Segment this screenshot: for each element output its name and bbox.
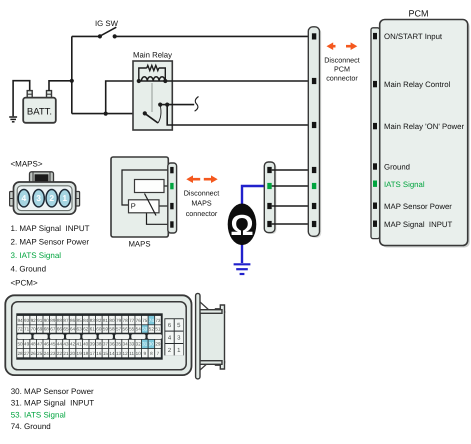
svg-text:73: 73 xyxy=(155,318,161,323)
svg-text:70: 70 xyxy=(31,327,37,332)
svg-text:83: 83 xyxy=(90,318,96,323)
svg-text:1: 1 xyxy=(62,193,67,203)
wire MAPS harness pin4 to PCM harness xyxy=(272,223,313,225)
svg-text:64: 64 xyxy=(70,327,76,332)
svg-text:Main Relay Control: Main Relay Control xyxy=(384,80,451,89)
svg-text:16: 16 xyxy=(96,351,102,356)
svg-text:2: 2 xyxy=(49,193,54,203)
node A junction xyxy=(70,79,74,83)
relay armature link xyxy=(151,83,153,112)
svg-text:92: 92 xyxy=(31,318,37,323)
svg-text:53. IATS Signal: 53. IATS Signal xyxy=(11,410,66,419)
svg-text:28: 28 xyxy=(17,351,23,356)
relay Main Relay xyxy=(133,51,172,131)
test lead (blue) ohmmeter to IATS pin xyxy=(242,186,268,206)
svg-text:7: 7 xyxy=(157,351,160,356)
svg-text:53: 53 xyxy=(142,327,148,332)
PCM pin grid row 94-73 xyxy=(17,316,161,325)
svg-text:59: 59 xyxy=(103,327,109,332)
MAPS internal wiring xyxy=(122,170,169,224)
PCM connector keying slots xyxy=(17,334,162,339)
PCM pin grid row 72-51 xyxy=(17,325,161,333)
svg-text:57: 57 xyxy=(116,327,122,332)
svg-text:37: 37 xyxy=(103,342,109,347)
MAPS pin 3 xyxy=(33,190,44,207)
ground (ohmmeter test lead) xyxy=(234,264,251,274)
svg-text:29: 29 xyxy=(155,342,161,347)
svg-text:IG SW: IG SW xyxy=(95,19,119,28)
svg-text:30: 30 xyxy=(149,342,155,347)
wire through relay coil row xyxy=(139,80,166,82)
svg-text:Ω: Ω xyxy=(230,210,253,242)
inductor relay coil xyxy=(141,77,165,81)
svg-text:21: 21 xyxy=(63,351,69,356)
svg-text:89: 89 xyxy=(50,318,56,323)
svg-text:Disconnect: Disconnect xyxy=(324,56,360,65)
PCM pin grid block xyxy=(16,313,162,359)
MAPS pin 2 xyxy=(46,190,57,207)
sensor MAPS box xyxy=(111,157,168,249)
svg-text:47: 47 xyxy=(37,342,43,347)
svg-text:41: 41 xyxy=(77,342,83,347)
PCM connector mounting bracket xyxy=(196,293,225,379)
svg-text:PCM: PCM xyxy=(409,9,429,19)
wire MAPS harness pin2 (IATS) to PCM harness xyxy=(272,185,313,187)
svg-text:72: 72 xyxy=(17,327,23,332)
svg-text:9: 9 xyxy=(144,351,147,356)
wire relay coil to PCM connector (Main Relay Control) xyxy=(165,80,312,82)
svg-text:77: 77 xyxy=(129,318,135,323)
svg-text:4: 4 xyxy=(22,193,27,203)
svg-text:31. MAP Signal INPUT: 31. MAP Signal INPUT xyxy=(11,399,95,408)
svg-text:85: 85 xyxy=(77,318,83,323)
svg-text:4. Ground: 4. Ground xyxy=(11,264,47,273)
label Disconnect MAPS connector with arrows xyxy=(184,175,220,218)
svg-text:31: 31 xyxy=(142,342,148,347)
svg-text:43: 43 xyxy=(63,342,69,347)
wire IG SW feed (vertical bus) xyxy=(71,36,73,113)
svg-text:50: 50 xyxy=(17,342,23,347)
svg-text:61: 61 xyxy=(90,327,96,332)
svg-text:38: 38 xyxy=(96,342,102,347)
module PCM box xyxy=(380,9,470,248)
svg-text:40: 40 xyxy=(83,342,89,347)
svg-text:32: 32 xyxy=(136,342,142,347)
svg-text:54: 54 xyxy=(136,327,142,332)
svg-text:94: 94 xyxy=(17,318,23,323)
svg-text:71: 71 xyxy=(24,327,30,332)
svg-text:60: 60 xyxy=(96,327,102,332)
svg-text:51: 51 xyxy=(155,327,161,332)
svg-text:<PCM>: <PCM> xyxy=(11,278,38,287)
svg-text:19: 19 xyxy=(77,351,83,356)
ohmmeter xyxy=(228,204,257,246)
ground (battery negative) xyxy=(9,117,17,122)
connector MAPS harness strip xyxy=(264,162,276,234)
svg-text:58: 58 xyxy=(109,327,115,332)
svg-text:69: 69 xyxy=(37,327,43,332)
relay switch contacts xyxy=(143,103,170,124)
svg-text:3. IATS Signal: 3. IATS Signal xyxy=(11,251,62,260)
svg-text:20: 20 xyxy=(70,351,76,356)
svg-text:26: 26 xyxy=(31,351,37,356)
wire MAPS harness pin3 to PCM harness xyxy=(272,205,313,207)
svg-text:2. MAP Sensor Power: 2. MAP Sensor Power xyxy=(11,237,90,246)
svg-text:56: 56 xyxy=(123,327,129,332)
svg-text:39: 39 xyxy=(90,342,96,347)
PCM pin grid row 28-7 xyxy=(17,349,161,357)
svg-text:30. MAP Sensor Power: 30. MAP Sensor Power xyxy=(11,387,94,396)
svg-text:11: 11 xyxy=(129,351,134,356)
wire node A row to relay switch common xyxy=(72,113,145,115)
wire IG SW to PCM connector pin ON/START xyxy=(115,35,313,37)
svg-text:14: 14 xyxy=(109,351,115,356)
svg-text:Main Relay 'ON' Power: Main Relay 'ON' Power xyxy=(384,122,465,131)
svg-text:76: 76 xyxy=(136,318,142,323)
connector view PCM shell xyxy=(5,295,191,375)
svg-text:91: 91 xyxy=(37,318,43,323)
svg-text:36: 36 xyxy=(109,342,115,347)
svg-text:12: 12 xyxy=(123,351,129,356)
connector tab on MAPS (component side) xyxy=(168,163,177,233)
svg-text:35: 35 xyxy=(116,342,122,347)
svg-text:27: 27 xyxy=(24,351,30,356)
svg-text:8: 8 xyxy=(150,351,153,356)
resistor (relay coil suppression) xyxy=(139,65,166,81)
wire node B to relay coil xyxy=(106,81,139,114)
PCM pin grid row 50-29 xyxy=(17,340,161,349)
svg-text:MAPS: MAPS xyxy=(128,240,150,249)
svg-text:ON/START Input: ON/START Input xyxy=(384,32,443,41)
wire battery positive to node A xyxy=(49,81,72,91)
svg-text:44: 44 xyxy=(57,342,63,347)
svg-text:<MAPS>: <MAPS> xyxy=(11,160,43,169)
wire relay aux output with break symbol xyxy=(167,97,198,112)
svg-text:BATT.: BATT. xyxy=(27,106,52,117)
svg-text:84: 84 xyxy=(83,318,89,323)
svg-text:90: 90 xyxy=(44,318,50,323)
svg-text:65: 65 xyxy=(63,327,69,332)
svg-text:13: 13 xyxy=(116,351,122,356)
wire relay switched output to PCM connector (Main Relay ON Power) xyxy=(167,105,312,125)
svg-text:MAP Signal INPUT: MAP Signal INPUT xyxy=(384,220,453,229)
svg-text:Ground: Ground xyxy=(384,163,410,172)
svg-text:Disconnect: Disconnect xyxy=(184,188,220,197)
svg-text:15: 15 xyxy=(103,351,109,356)
svg-text:45: 45 xyxy=(50,342,56,347)
svg-text:23: 23 xyxy=(50,351,56,356)
svg-text:22: 22 xyxy=(57,351,63,356)
svg-text:87: 87 xyxy=(63,318,69,323)
svg-text:67: 67 xyxy=(50,327,56,332)
svg-text:25: 25 xyxy=(37,351,43,356)
svg-text:34: 34 xyxy=(123,342,129,347)
wire battery negative to ground xyxy=(13,81,30,117)
svg-text:1. MAP Signal INPUT: 1. MAP Signal INPUT xyxy=(11,224,90,233)
svg-text:74: 74 xyxy=(149,318,155,323)
svg-text:88: 88 xyxy=(57,318,63,323)
connector PCM header (module side) xyxy=(371,28,380,239)
svg-text:connector: connector xyxy=(326,74,358,83)
svg-text:81: 81 xyxy=(103,318,109,323)
svg-text:82: 82 xyxy=(96,318,102,323)
connector PCM harness strip xyxy=(308,27,321,238)
svg-text:MAP Sensor Power: MAP Sensor Power xyxy=(384,202,452,211)
svg-text:17: 17 xyxy=(90,351,96,356)
MAPS pressure sensing element P xyxy=(129,194,160,216)
svg-text:86: 86 xyxy=(70,318,76,323)
svg-text:80: 80 xyxy=(109,318,115,323)
svg-text:MAPS: MAPS xyxy=(191,199,212,208)
svg-text:78: 78 xyxy=(123,318,129,323)
svg-text:75: 75 xyxy=(142,318,148,323)
svg-text:18: 18 xyxy=(83,351,89,356)
svg-text:74. Ground: 74. Ground xyxy=(11,422,51,431)
svg-text:10: 10 xyxy=(136,351,142,356)
MAPS inner element (vacuum chamber) xyxy=(135,180,165,193)
svg-text:79: 79 xyxy=(116,318,122,323)
svg-text:68: 68 xyxy=(44,327,50,332)
svg-text:42: 42 xyxy=(70,342,76,347)
svg-text:P: P xyxy=(131,202,136,211)
svg-text:93: 93 xyxy=(24,318,30,323)
svg-text:46: 46 xyxy=(44,342,50,347)
svg-text:Main Relay: Main Relay xyxy=(133,51,172,60)
MAPS pin 4 xyxy=(18,190,29,207)
svg-text:48: 48 xyxy=(31,342,37,347)
svg-text:66: 66 xyxy=(57,327,63,332)
MAPS pin 1 xyxy=(59,190,70,207)
svg-text:62: 62 xyxy=(83,327,89,332)
svg-text:55: 55 xyxy=(129,327,135,332)
svg-text:52: 52 xyxy=(149,327,155,332)
battery BATT. xyxy=(23,91,56,123)
svg-text:3: 3 xyxy=(36,193,41,203)
PCM pin block 1-6 xyxy=(164,318,183,355)
connector view MAPS face xyxy=(10,172,80,214)
svg-text:63: 63 xyxy=(77,327,83,332)
svg-text:49: 49 xyxy=(24,342,30,347)
label Disconnect PCM connector with arrows xyxy=(324,42,360,82)
svg-text:24: 24 xyxy=(44,351,50,356)
svg-text:IATS Signal: IATS Signal xyxy=(384,180,425,189)
test lead (blue) ohmmeter to ground xyxy=(241,243,243,263)
wire MAPS harness pin1 to PCM harness xyxy=(272,169,313,171)
svg-text:33: 33 xyxy=(129,342,135,347)
node B junction xyxy=(104,112,108,116)
svg-text:PCM: PCM xyxy=(334,65,350,74)
svg-text:connector: connector xyxy=(186,209,218,218)
switch IG SW xyxy=(72,19,119,39)
